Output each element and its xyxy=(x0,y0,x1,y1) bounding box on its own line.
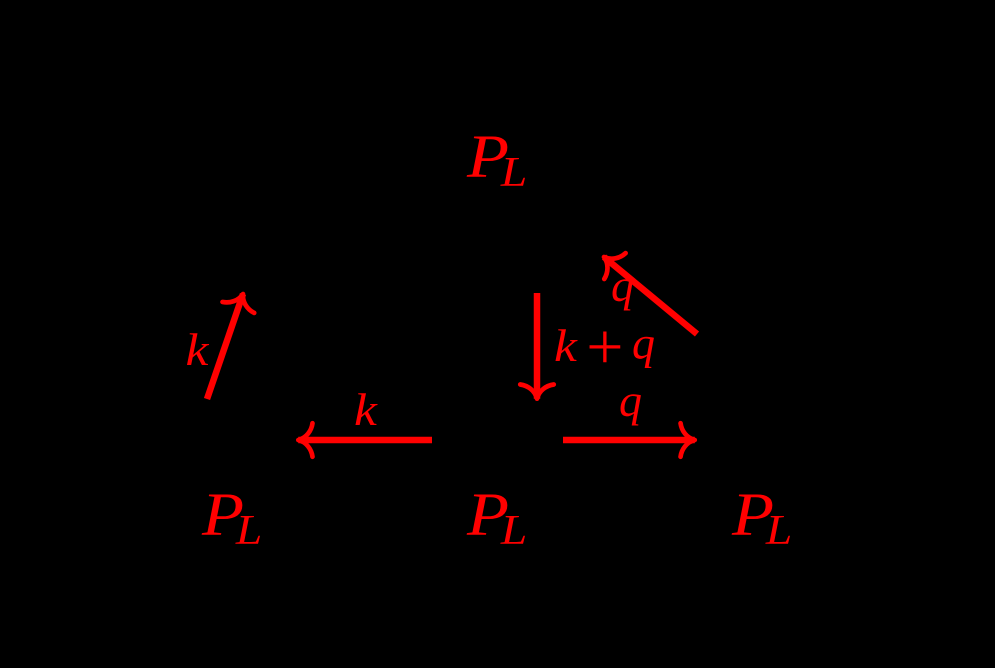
svg-text:q: q xyxy=(611,260,634,311)
svg-text:L: L xyxy=(500,149,527,196)
svg-text:L: L xyxy=(765,507,792,554)
svg-text:k: k xyxy=(554,320,578,372)
svg-text:q: q xyxy=(632,318,655,369)
svg-text:L: L xyxy=(500,507,527,554)
svg-text:k: k xyxy=(354,384,378,436)
svg-text:+: + xyxy=(586,311,623,384)
svg-text:L: L xyxy=(235,507,262,554)
svg-text:k: k xyxy=(186,324,210,376)
